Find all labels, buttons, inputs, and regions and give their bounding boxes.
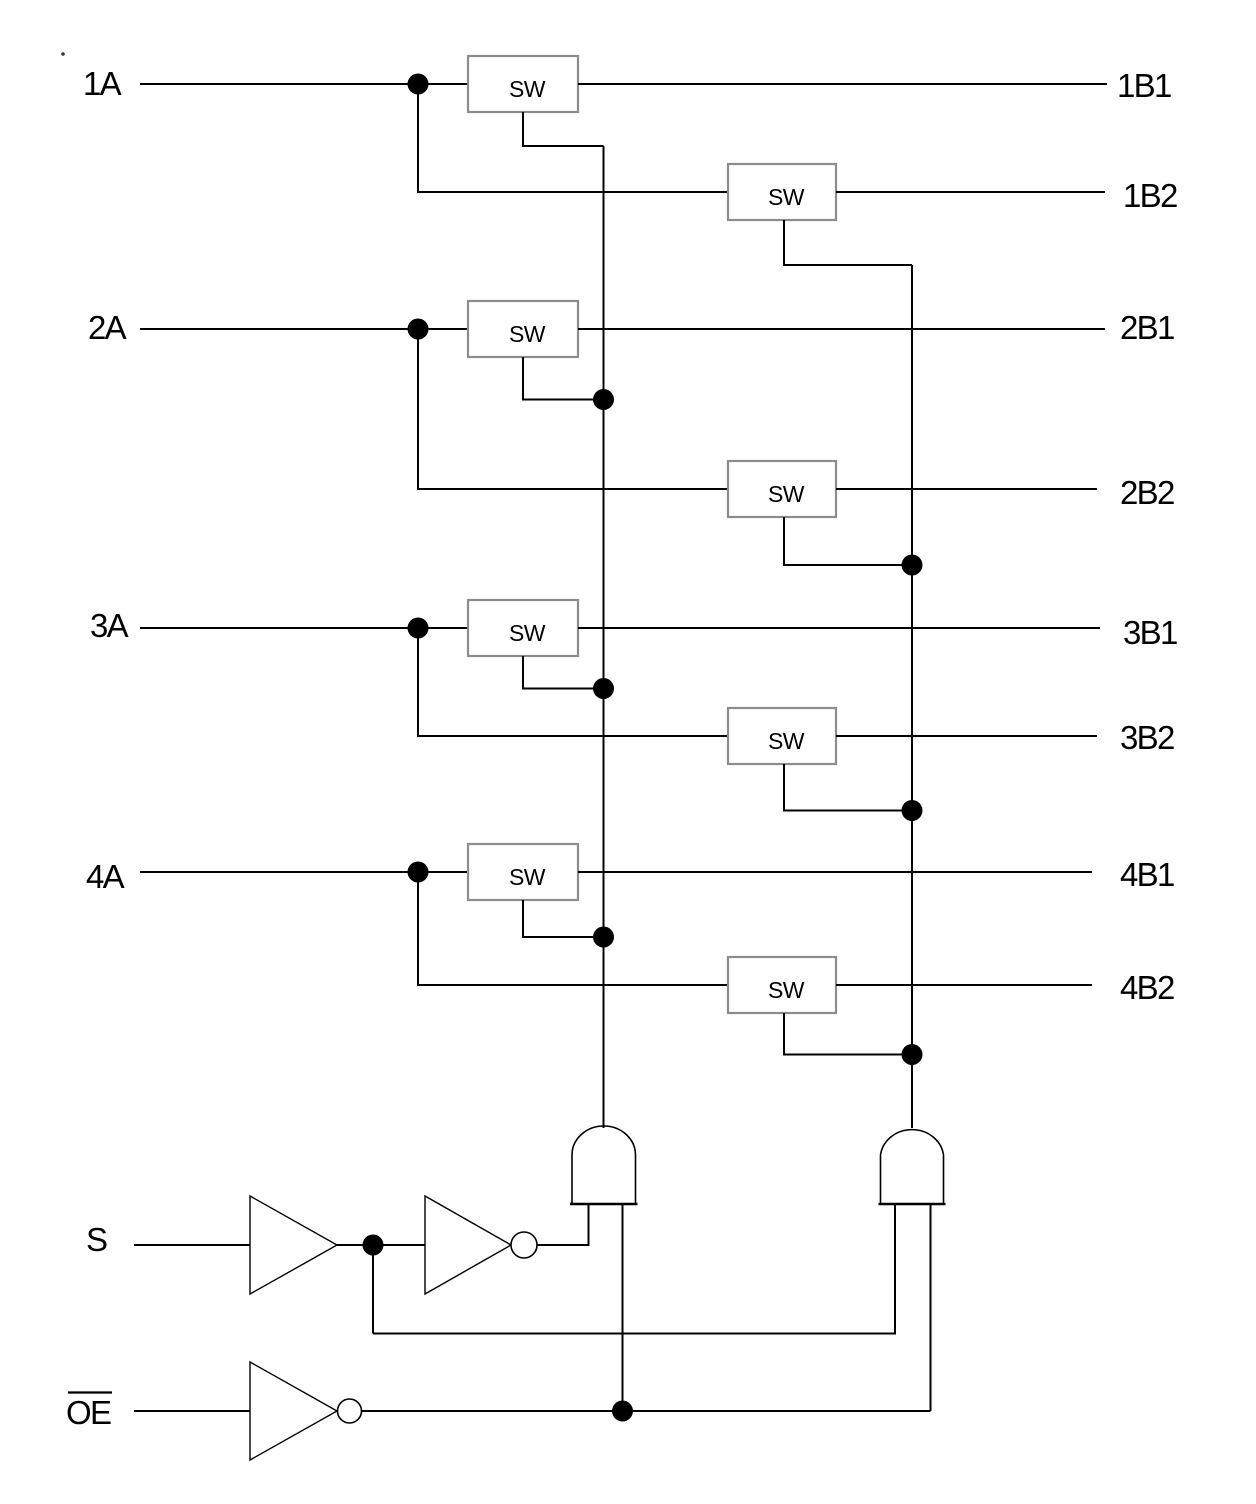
svg-text:1B1: 1B1	[1117, 67, 1171, 104]
wire SW1B2 control pin to bus2	[784, 220, 912, 265]
wire 4A input	[140, 871, 468, 873]
wire 4A branch down to 4B2 row	[418, 872, 728, 985]
svg-text:4B1: 4B1	[1120, 856, 1174, 893]
switch SW 1B1	[468, 56, 578, 112]
AND gate U1 (B1 select)	[570, 1126, 638, 1204]
wire SW1B1 output to 1B1	[578, 83, 1107, 85]
wire SW2B1 output to 2B1	[578, 328, 1105, 330]
wire SW3B2 control pin to bus2	[784, 764, 912, 811]
svg-text:1B2: 1B2	[1123, 177, 1177, 214]
node OE label (with overbar)	[66, 1393, 112, 1432]
wire SW4B1 control pin to bus1	[523, 900, 604, 937]
junction dot OE line	[612, 1401, 633, 1422]
switch SW 4B1	[468, 844, 578, 900]
wire SW1B2 output to 1B2	[836, 191, 1105, 193]
junction dot SW2B2 control on bus2	[902, 555, 923, 576]
switch SW 1B2	[728, 164, 836, 220]
svg-text:2A: 2A	[88, 309, 127, 346]
svg-text:SW: SW	[509, 321, 546, 347]
wire U2 right input leg to OE line	[930, 1204, 932, 1411]
wire 3A input	[140, 627, 468, 629]
svg-text:3A: 3A	[90, 607, 129, 644]
wire U1 left input leg	[537, 1204, 589, 1245]
svg-text:SW: SW	[768, 481, 805, 507]
svg-text:2B2: 2B2	[1120, 474, 1174, 511]
wire S branch down	[372, 1245, 374, 1334]
svg-text:3B2: 3B2	[1120, 719, 1174, 756]
svg-text:SW: SW	[768, 184, 805, 210]
junction dot 1A	[408, 74, 429, 95]
junction dot SW4B2 control on bus2	[902, 1044, 923, 1065]
wire SW4B1 output to 4B1	[578, 871, 1092, 873]
wire U2 left input leg to S branch	[373, 1204, 895, 1334]
wire SW4B2 control pin to bus2	[784, 1013, 912, 1055]
junction dot SW4B1 control on bus1	[593, 927, 614, 948]
wire 1A input	[140, 83, 468, 85]
wire U1 right input leg to OE line	[622, 1204, 624, 1411]
svg-text:SW: SW	[509, 864, 546, 890]
wire SW2B2 control pin to bus2	[784, 517, 912, 565]
switch SW 3B1	[468, 600, 578, 656]
wire SW1B1 control pin to bus1	[523, 112, 604, 146]
svg-text:OE: OE	[66, 1394, 111, 1431]
svg-text:4A: 4A	[86, 858, 125, 895]
wire bus1 select line vertical	[603, 146, 605, 1128]
wire OE input	[134, 1410, 250, 1412]
switch SW 3B2	[728, 708, 836, 764]
switch SW 2B1	[468, 301, 578, 357]
wire SW2B2 output to 2B2	[836, 488, 1097, 490]
switch SW 2B2	[728, 461, 836, 517]
junction dot S node	[363, 1235, 384, 1256]
wire 2A input	[140, 328, 468, 330]
wire U5 output to gates	[362, 1410, 931, 1412]
buffer U3 (S buffer)	[250, 1196, 337, 1294]
svg-text:4B2: 4B2	[1120, 969, 1174, 1006]
svg-text:SW: SW	[768, 728, 805, 754]
wire S input	[134, 1244, 250, 1246]
wire SW2B1 control pin to bus1	[523, 357, 604, 400]
wire SW4B2 output to 4B2	[836, 984, 1092, 986]
junction dot 2A	[408, 319, 429, 340]
wire 1A branch down to 1B2 row	[418, 84, 728, 192]
wire SW3B1 output to 3B1	[578, 627, 1100, 629]
inverter U5 (OE inverter)	[250, 1362, 337, 1460]
junction dot 4A	[408, 862, 429, 883]
junction dot SW3B1 control on bus1	[593, 678, 614, 699]
junction dot 3A	[408, 618, 429, 639]
svg-text:SW: SW	[509, 76, 546, 102]
stray speck top-left	[61, 52, 65, 56]
wire SW3B1 control pin to bus1	[523, 656, 604, 689]
svg-text:S: S	[86, 1221, 108, 1258]
wire bus2 select line vertical	[911, 265, 913, 1128]
inverter U4 (S inverter)	[425, 1196, 511, 1294]
bubble U5 output	[338, 1399, 362, 1423]
svg-text:1A: 1A	[83, 65, 122, 102]
switch SW 4B2	[728, 957, 836, 1013]
svg-text:3B1: 3B1	[1123, 614, 1177, 651]
junction dot SW2B1 control on bus1	[593, 389, 614, 410]
svg-text:SW: SW	[509, 620, 546, 646]
wire 2A branch down to 2B2 row	[418, 329, 728, 489]
junction dot SW3B2 control on bus2	[902, 800, 923, 821]
wire U4 output to U1	[537, 1244, 589, 1246]
wire S buffer output	[337, 1244, 425, 1246]
AND gate U2 (B2 select)	[879, 1130, 946, 1204]
svg-text:2B1: 2B1	[1120, 309, 1174, 346]
svg-text:SW: SW	[768, 977, 805, 1003]
wire 3A branch down to 3B2 row	[418, 628, 728, 736]
wire SW3B2 output to 3B2	[836, 735, 1097, 737]
bubble U4 output	[511, 1232, 537, 1258]
